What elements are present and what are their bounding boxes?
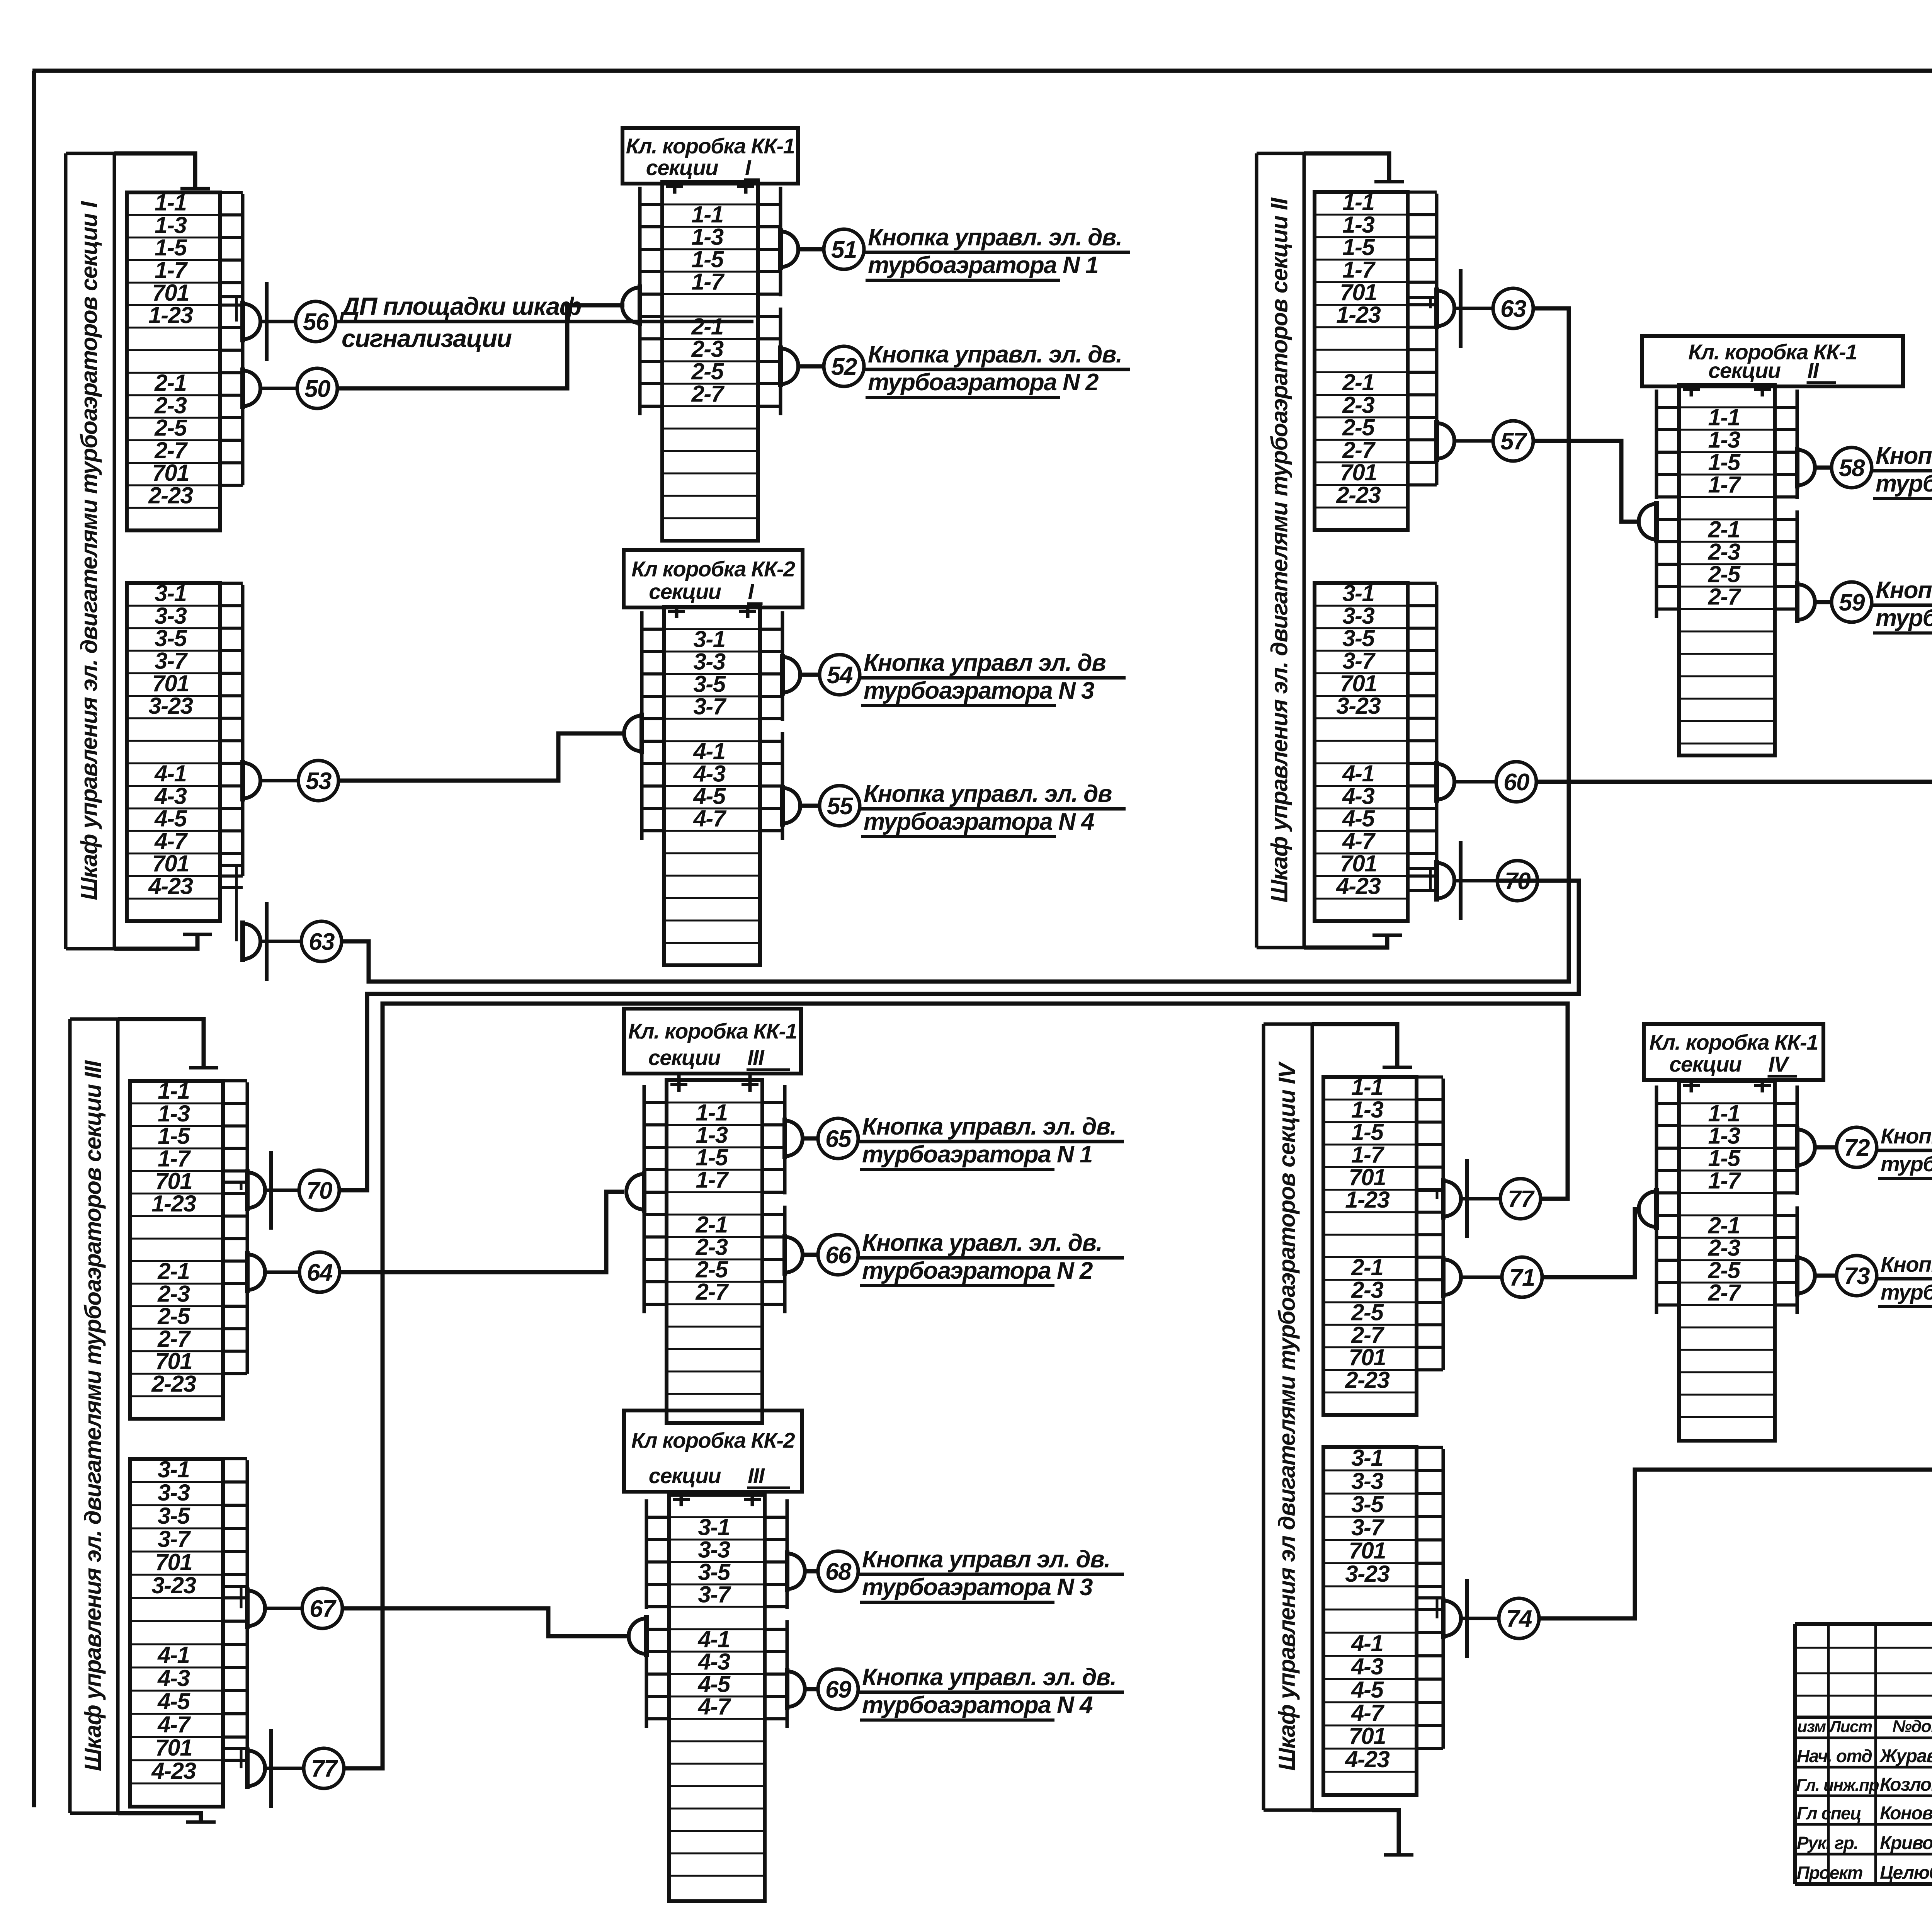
svg-text:3-7: 3-7 [155,648,188,674]
svg-text:1-1: 1-1 [1342,189,1374,215]
connector 60 at cabinet II row 4-1 [1437,764,1454,800]
svg-text:турбоаэратора N 1: турбоаэратора N 1 [868,252,1098,279]
svg-text:2-3: 2-3 [691,336,723,362]
connector 68 on KK-2 III [787,1553,805,1589]
junction box KK-2 section III terminal table [669,1495,765,1901]
label 52 [864,368,1130,371]
label 55 [860,807,1126,811]
svg-text:3-23: 3-23 [148,693,193,719]
svg-text:Кнопка управл. эл. дв.: Кнопка управл. эл. дв. [862,1664,1116,1691]
svg-text:52: 52 [831,354,857,380]
svg-text:2-23: 2-23 [1336,482,1381,508]
cabinet IV terminal table block 1 (rows 1-1..2-23) [1323,1077,1417,1415]
button circle 68 [818,1551,858,1591]
svg-text:54: 54 [827,662,853,689]
button circle 59 [1832,582,1872,622]
svg-text:Кл. коробка КК-1: Кл. коробка КК-1 [1649,1030,1818,1055]
svg-text:Лист: Лист [1828,1717,1872,1735]
button circle 66 [818,1235,858,1275]
cable circle 74 [1499,1598,1539,1638]
incoming connector on KK-1 III (cable 64) [626,1174,644,1210]
svg-text:секции: секции [646,155,719,180]
svg-text:1-3: 1-3 [1342,212,1374,238]
svg-text:1-3: 1-3 [1708,427,1740,453]
svg-text:4-23: 4-23 [148,873,193,899]
cabinet III enclosure strip (Shkaf upravleniya section III) [68,1019,72,1813]
svg-text:4-23: 4-23 [151,1758,196,1784]
svg-text:3-7: 3-7 [1342,648,1376,674]
svg-text:3-5: 3-5 [693,671,726,697]
svg-text:4-3: 4-3 [693,761,725,786]
cabinet IV bottom cable entry [1312,1810,1399,1855]
svg-text:2-1: 2-1 [691,313,723,339]
svg-text:№докум: №докум [1892,1717,1932,1736]
svg-text:3-1: 3-1 [158,1456,189,1482]
svg-text:ІV: ІV [1769,1052,1790,1076]
cabinet III terminal bus upper [246,1082,249,1374]
svg-text:турбоаэратора N 1: турбоаэратора N 1 [862,1141,1092,1168]
svg-text:Журавель: Журавель [1879,1746,1932,1766]
svg-text:1-1: 1-1 [696,1099,727,1125]
svg-text:2-7: 2-7 [157,1326,191,1352]
svg-text:68: 68 [825,1558,852,1585]
svg-text:Кнопка управл. эл. дв.: Кнопка управл. эл. дв. [868,341,1122,368]
svg-text:4-5: 4-5 [154,806,187,832]
svg-text:ІІ: ІІ [1808,358,1820,383]
svg-text:57: 57 [1500,428,1527,455]
svg-text:2-7: 2-7 [695,1279,729,1305]
svg-text:Шкаф управления эл. двигател: Шкаф управления эл. двигателями турбоаэр… [1267,197,1293,903]
svg-text:Проект: Проект [1797,1863,1862,1883]
svg-text:1-23: 1-23 [148,302,193,328]
svg-text:1-5: 1-5 [158,1123,190,1149]
svg-text:турбоаэратора N 2: турбоаэратора N 2 [868,369,1099,396]
svg-text:4-5: 4-5 [1351,1677,1384,1703]
svg-text:50: 50 [304,376,330,402]
svg-text:701: 701 [1349,1164,1386,1190]
svg-text:63: 63 [309,929,335,955]
svg-text:2-3: 2-3 [1342,392,1374,418]
connector 56 at cabinet I row 701 [243,304,260,339]
svg-text:4-23: 4-23 [1345,1746,1389,1772]
cable circle 77 [1500,1179,1541,1219]
cabinet I terminal bus upper [241,194,245,485]
button circle 54 [820,655,860,695]
svg-text:секции: секции [649,579,721,604]
svg-text:3-1: 3-1 [693,626,725,652]
svg-text:77: 77 [311,1756,338,1782]
svg-text:турбоаэратора N 1: турбоаэратора N 1 [1876,470,1932,497]
connector 73 on KK-1 IV [1797,1258,1815,1293]
svg-text:2-3: 2-3 [1351,1277,1383,1303]
svg-text:Рук. гр.: Рук. гр. [1797,1833,1858,1853]
incoming connector on KK-1 II (cable 57) [1639,504,1656,539]
svg-text:Кнопка управл. эл. дв.: Кнопка управл. эл. дв. [868,224,1122,251]
cabinet II enclosure strip (Shkaf upravleniya section II) [1255,153,1259,948]
svg-text:Кнопка управл. эл. дв.: Кнопка управл. эл. дв. [1876,442,1932,469]
svg-text:1-1: 1-1 [158,1078,189,1104]
svg-text:2-5: 2-5 [1351,1300,1384,1325]
svg-text:2-7: 2-7 [1351,1322,1384,1348]
cabinet IV terminal bus upper [1442,1079,1445,1370]
svg-text:2-5: 2-5 [691,358,724,384]
svg-text:4-1: 4-1 [157,1642,189,1668]
svg-text:изм: изм [1797,1717,1826,1735]
svg-text:1-7: 1-7 [696,1167,729,1193]
cabinet III terminal table block 2 (rows 3-1..4-23) [130,1459,223,1807]
incoming connector on KK-2 I (cable 53) [624,716,642,751]
junction box KK-1 section I right terminal bus [779,187,782,296]
svg-text:1-1: 1-1 [691,201,723,227]
svg-text:1-5: 1-5 [155,235,187,260]
svg-text:2-23: 2-23 [1345,1367,1389,1393]
wire route 50 (section I cabinet to junction box KK-1 I) [337,305,624,388]
wire route 57 (section II cabinet to junction box KK-1 II) [1533,441,1639,522]
cable circle 70 [1497,861,1537,901]
cabinet IV top cable entry [1312,1024,1397,1067]
junction box KK-1 section II header box [1642,336,1903,386]
svg-text:1-23: 1-23 [1345,1187,1389,1213]
cable circle 57 [1493,421,1533,461]
button circle 52 [824,346,864,386]
svg-text:Гл спец: Гл спец [1797,1803,1861,1823]
connector 69 on KK-2 III [787,1671,805,1707]
cabinet I terminal table block 2 (rows 3-1..4-23) [127,583,220,921]
connector 64 at cabinet III row 2-1 [247,1254,265,1290]
junction box KK-1 section II terminal table [1679,385,1775,755]
junction box KK-1 section III terminal table [667,1080,762,1423]
svg-text:3-3: 3-3 [1342,603,1374,629]
svg-text:58: 58 [1839,455,1865,481]
cabinet II terminal bus upper [1435,194,1439,485]
svg-text:1-7: 1-7 [691,269,724,294]
svg-text:4-3: 4-3 [1351,1654,1383,1679]
svg-text:1-3: 1-3 [155,212,187,238]
cabinet III terminal bus lower [246,1460,249,1760]
svg-text:4-1: 4-1 [154,761,186,786]
svg-text:1-1: 1-1 [155,190,186,216]
junction box KK-1 section II right terminal bus [1796,390,1799,499]
svg-text:3-5: 3-5 [155,625,187,651]
connector 71 at cabinet IV row 2-1 [1443,1259,1461,1295]
svg-text:51: 51 [831,236,857,263]
junction box KK-1 section I header legs [673,184,677,194]
svg-text:2-1: 2-1 [1708,1212,1740,1238]
button circle 55 [820,786,860,826]
button circle 69 [818,1669,858,1709]
svg-text:4-7: 4-7 [157,1712,191,1737]
svg-text:4-1: 4-1 [697,1626,730,1652]
cable circle 63 [301,921,342,961]
junction box KK-2 section III header box [624,1410,802,1492]
svg-text:Шкаф управления эл. двигател: Шкаф управления эл. двигателями турбоаэр… [80,1060,106,1771]
svg-text:3-23: 3-23 [1345,1561,1389,1587]
label 66 [858,1256,1124,1260]
svg-text:1-3: 1-3 [158,1101,190,1126]
svg-text:Кнопка управл. эл. дв.: Кнопка управл. эл. дв. [1876,577,1932,604]
button circle 72 [1837,1127,1877,1167]
svg-text:2-1: 2-1 [1342,369,1374,395]
svg-text:1-5: 1-5 [1708,1145,1741,1171]
svg-text:1-5: 1-5 [1342,234,1375,260]
svg-text:4-3: 4-3 [697,1649,730,1674]
svg-text:секции: секции [1669,1052,1742,1076]
junction box KK-1 section IV left terminal bus [1655,1086,1658,1195]
cabinet I terminal table block 1 (rows 1-1..2-23) [127,192,220,531]
svg-text:4-3: 4-3 [1342,783,1374,809]
svg-text:4-7: 4-7 [693,805,726,831]
svg-text:3-3: 3-3 [693,648,725,674]
junction box KK-1 section II header legs [1690,386,1693,396]
connector 57 at cabinet II row 2-1 [1437,423,1454,459]
svg-text:турбоаэратора N 1: турбоаэратора N 1 [1881,1152,1932,1176]
label 68 [858,1573,1124,1576]
svg-text:4-5: 4-5 [697,1671,731,1697]
svg-text:4-5: 4-5 [693,783,726,809]
svg-text:1-3: 1-3 [691,224,723,250]
svg-text:4-1: 4-1 [693,738,725,764]
cabinet IV enclosure strip (Shkaf upravleniya section IV) [1262,1024,1265,1810]
connector 65 on KK-1 III [785,1121,803,1156]
button circle 58 [1832,447,1872,488]
cable circle 71 [1502,1257,1542,1297]
svg-text:Гл. инж.пр: Гл. инж.пр [1796,1776,1879,1795]
svg-text:4-5: 4-5 [1342,806,1375,832]
cabinet III top cable entry [118,1019,204,1068]
svg-text:67: 67 [310,1596,337,1622]
junction box KK-2 section I header box [624,550,803,607]
svg-text:4-5: 4-5 [157,1688,190,1714]
svg-text:Кнопка управл. эл. дв.: Кнопка управл. эл. дв. [1881,1124,1932,1148]
junction box KK-2 section III right terminal bus [786,1499,789,1609]
svg-text:701: 701 [1340,670,1377,696]
svg-text:Кл. коробка КК-1: Кл. коробка КК-1 [626,134,794,158]
svg-text:55: 55 [827,793,854,820]
svg-text:турбоаэратора N 2: турбоаэратора N 2 [1881,1280,1932,1304]
junction box KK-2 section III left terminal bus [645,1499,648,1609]
connector 74 at cabinet IV row 3-23 [1443,1601,1461,1636]
svg-text:2-1: 2-1 [154,370,186,396]
junction box KK-1 section IV terminal table [1679,1081,1775,1441]
svg-text:4-3: 4-3 [157,1665,190,1691]
svg-text:1-1: 1-1 [1708,404,1740,430]
label 69 [858,1691,1124,1694]
cabinet II terminal bus lower [1435,585,1439,876]
svg-text:турбоаэратора N 2: турбоаэратора N 2 [1876,605,1932,631]
cable circle 53 [298,761,338,801]
svg-text:66: 66 [825,1242,852,1269]
connector 66 on KK-1 III [785,1237,803,1273]
junction box KK-1 section III header box [624,1009,801,1074]
svg-text:2-3: 2-3 [695,1234,728,1260]
svg-text:73: 73 [1844,1263,1870,1290]
svg-text:3-5: 3-5 [698,1559,731,1585]
svg-text:Козловская: Козловская [1880,1775,1932,1795]
junction box KK-1 section IV header legs [1690,1080,1693,1092]
junction box KK-1 section III left terminal bus [643,1085,646,1194]
junction box KK-2 section I header legs [675,607,679,618]
svg-text:2-5: 2-5 [1708,1257,1741,1283]
svg-text:Кнопка управл эл. дв: Кнопка управл эл. дв [864,650,1105,676]
svg-text:2-7: 2-7 [1708,1279,1741,1305]
connector 50 at cabinet I row 2-1 [243,371,260,406]
button circle 65 [818,1118,858,1159]
svg-text:1-1: 1-1 [1351,1074,1383,1100]
cabinet IV terminal bus lower [1442,1449,1445,1749]
svg-text:Кл. коробка КК-1: Кл. коробка КК-1 [628,1019,797,1043]
cabinet II bottom cable entry [1304,935,1387,948]
junction box KK-2 section I left terminal bus [640,611,644,721]
junction box KK-2 section I terminal table [664,607,760,965]
wire stub 56 (DP ploshchadki cable) [336,320,753,323]
cable circle 64 [299,1252,340,1292]
svg-text:2-5: 2-5 [154,415,187,441]
svg-text:4-3: 4-3 [154,783,187,809]
page border frame top [32,69,1932,73]
label 54 [860,676,1126,680]
svg-text:3-3: 3-3 [1351,1468,1383,1494]
cable circle 56 [296,301,336,342]
svg-text:74: 74 [1506,1606,1532,1632]
connector 77 at cabinet III rows 701/4-23 [247,1751,265,1786]
incoming connector on KK-1 I (cable 50) [622,288,640,323]
svg-text:701: 701 [155,1348,192,1374]
svg-text:2-5: 2-5 [695,1256,728,1282]
svg-text:2-1: 2-1 [695,1211,727,1237]
svg-text:3-7: 3-7 [158,1526,191,1552]
cable circle 77 [304,1748,344,1788]
label 58 [1872,469,1932,473]
svg-text:3-3: 3-3 [155,603,187,629]
junction box KK-2 section III header legs [680,1492,683,1506]
incoming connector on KK-2 III (cable 67) [629,1618,646,1654]
junction box KK-2 section I right terminal bus [781,611,784,721]
svg-text:Кнопка управл. эл. дв.: Кнопка управл. эл. дв. [1881,1252,1932,1276]
svg-text:1-7: 1-7 [1708,1167,1741,1193]
svg-text:турбоаэратора N 3: турбоаэратора N 3 [864,677,1094,704]
connector 63 at cabinet II row 701 [1437,291,1454,326]
wire route 74 (section IV cabinet to junction box KK-2 IV) [1539,1211,1932,1618]
svg-text:Нач. отд: Нач. отд [1797,1746,1872,1766]
cabinet I terminal bus lower [241,585,245,876]
svg-text:3-1: 3-1 [155,580,186,606]
svg-text:4-7: 4-7 [1342,828,1376,854]
connector 52 on KK-1 I [781,349,798,384]
svg-text:701: 701 [152,670,189,696]
wire route 77 (section III bottom to section IV top) [344,1004,1568,1768]
svg-text:турбоаэратора N 4: турбоаэратора N 4 [864,808,1094,835]
svg-text:3-1: 3-1 [1342,580,1374,606]
cable circle 60 [1496,762,1536,802]
svg-text:60: 60 [1503,769,1529,796]
wire route 71 (section IV cabinet to junction box KK-1 IV) [1542,1209,1641,1277]
cabinet II terminal table block 2 (rows 3-1..4-23) [1315,583,1408,921]
svg-text:69: 69 [825,1676,852,1703]
svg-text:2-1: 2-1 [1351,1254,1383,1280]
junction box KK-1 section II left terminal bus [1655,390,1658,499]
cabinet II terminal table block 1 (rows 1-1..2-23) [1315,192,1408,530]
svg-text:64: 64 [307,1259,333,1286]
connector 55 on KK-2 I [782,788,800,823]
svg-text:3-7: 3-7 [1351,1514,1384,1540]
junction box KK-1 section I header box [622,128,798,184]
svg-text:секции: секции [1708,358,1781,383]
title signature table grid [1793,1624,1797,1884]
svg-text:70: 70 [1505,868,1531,895]
svg-text:ІІІ: ІІІ [748,1463,765,1488]
svg-text:Кнопка уравл. эл. дв.: Кнопка уравл. эл. дв. [862,1230,1102,1256]
wire route 67 (section III cabinet to junction box KK-2 III) [342,1608,629,1636]
svg-text:72: 72 [1844,1135,1870,1161]
svg-text:3-7: 3-7 [693,693,726,719]
label 73 [1877,1277,1932,1281]
cabinet I top cable entry [114,153,195,189]
label 65 [858,1140,1124,1143]
svg-text:секции: секции [649,1463,721,1488]
svg-text:секции: секции [648,1045,721,1070]
svg-text:1-7: 1-7 [158,1146,191,1172]
connector 72 on KK-1 IV [1797,1130,1815,1165]
svg-text:1-5: 1-5 [696,1144,728,1170]
svg-text:701: 701 [155,1168,192,1194]
svg-text:701: 701 [1340,459,1377,485]
svg-text:ДП площадки шкаф: ДП площадки шкаф [340,292,581,320]
cable circle 67 [302,1588,342,1628]
cabinet III bottom cable entry [118,1813,201,1822]
svg-text:701: 701 [155,1549,192,1575]
svg-text:59: 59 [1839,589,1865,616]
connector 67 at cabinet III row 3-23 [247,1591,265,1626]
svg-text:2-1: 2-1 [157,1258,189,1284]
svg-text:Кл коробка КК-2: Кл коробка КК-2 [631,1428,795,1453]
svg-text:56: 56 [303,309,329,335]
svg-text:701: 701 [1349,1723,1386,1749]
connector 54 on KK-2 I [782,657,800,692]
svg-text:турбоаэратора N 2: турбоаэратора N 2 [862,1257,1093,1284]
connector 77 at cabinet IV row 701 [1443,1181,1461,1217]
svg-text:3-7: 3-7 [698,1581,731,1607]
svg-text:701: 701 [1340,279,1377,305]
svg-text:2-3: 2-3 [1708,1235,1740,1261]
svg-text:70: 70 [306,1177,332,1204]
svg-text:2-7: 2-7 [1708,584,1741,609]
svg-text:2-3: 2-3 [1708,539,1740,565]
svg-text:Шкаф управления эл двигател: Шкаф управления эл двигателями турбоаэра… [1274,1061,1300,1771]
svg-text:63: 63 [1500,296,1526,322]
connector 58 on KK-1 II [1797,450,1815,485]
connector 59 on KK-1 II [1797,584,1815,620]
svg-text:1-7: 1-7 [1342,257,1376,283]
svg-text:4-1: 4-1 [1342,761,1374,786]
svg-text:2-1: 2-1 [1708,516,1740,542]
svg-text:3-1: 3-1 [698,1514,730,1540]
svg-text:4-7: 4-7 [697,1693,731,1719]
svg-text:1-5: 1-5 [1708,449,1741,475]
junction box KK-1 section III right terminal bus [783,1085,787,1194]
button circle 73 [1837,1256,1877,1296]
svg-text:701: 701 [1349,1344,1386,1370]
svg-text:701: 701 [152,460,189,486]
cabinet I bottom cable entry [114,934,197,949]
svg-text:1-7: 1-7 [1351,1142,1384,1168]
svg-text:3-3: 3-3 [158,1480,190,1506]
svg-text:4-7: 4-7 [1351,1700,1384,1726]
svg-text:701: 701 [1340,851,1377,876]
svg-text:2-23: 2-23 [148,483,193,509]
svg-text:701: 701 [152,280,189,306]
cable circle 70 [299,1170,339,1210]
svg-text:2-3: 2-3 [157,1281,190,1307]
